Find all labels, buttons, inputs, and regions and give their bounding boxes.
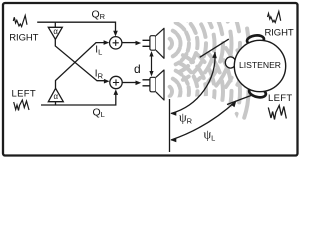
speaker plane vertical line <box>169 99 171 152</box>
arrowheads on wires <box>104 31 142 95</box>
angle arc psiL <box>170 101 236 143</box>
summing junction top <box>110 37 122 49</box>
ear bottom <box>248 86 267 99</box>
ear top <box>246 34 264 45</box>
waveform icon left-bottom <box>14 100 29 111</box>
waveform icon left-top <box>13 16 27 27</box>
wire bottom sum to speaker <box>122 82 137 84</box>
amplifier bottom (alpha) <box>48 88 63 101</box>
wire stub to bottom amp <box>55 102 57 105</box>
wire QR top horizontal <box>37 22 115 33</box>
svg-text:α: α <box>54 92 59 101</box>
svg-text:RIGHT: RIGHT <box>265 28 294 39</box>
border frame <box>3 3 298 156</box>
nose <box>225 57 235 68</box>
svg-text:d: d <box>134 62 141 76</box>
svg-text:α: α <box>53 27 58 36</box>
svg-text:RIGHT: RIGHT <box>9 33 38 44</box>
speaker terminal wires bottom <box>143 80 151 86</box>
angle arc psiR <box>170 52 217 116</box>
wavefront tick at right ear <box>200 39 229 57</box>
waveform icon right-top <box>268 12 281 23</box>
speaker top <box>150 28 164 58</box>
speaker terminal wires top <box>143 40 151 46</box>
arrow into bottom speaker <box>136 81 142 86</box>
arrow IL into top sum <box>104 40 110 45</box>
svg-text:LEFT: LEFT <box>12 89 36 100</box>
head <box>234 40 285 91</box>
arrow into top speaker <box>136 41 142 46</box>
dimension d between speakers <box>134 51 154 77</box>
arrow QL up into bottom sum <box>114 89 119 95</box>
sound waves from speakers <box>170 0 249 135</box>
wire QL bottom horizontal <box>41 93 116 106</box>
wire bottom amp output crossing to top sum <box>56 43 107 89</box>
arrow IR into bottom sum <box>104 79 110 84</box>
waveform icon right-bottom <box>268 106 286 120</box>
wire top sum to speaker <box>122 42 137 44</box>
svg-text:LISTENER: LISTENER <box>239 60 281 70</box>
listener head group <box>225 34 285 99</box>
speaker bottom <box>150 70 164 100</box>
wire stub to top amp <box>54 22 56 27</box>
amplifier top (alpha) <box>48 27 62 40</box>
arrow QR down into top sum <box>113 31 118 37</box>
wavefront tick at left ear <box>227 96 251 105</box>
schematic wires <box>37 22 150 105</box>
wire top amp output crossing to bottom sum <box>55 39 106 80</box>
svg-text:LEFT: LEFT <box>268 93 292 104</box>
summing junction bottom <box>110 76 122 88</box>
